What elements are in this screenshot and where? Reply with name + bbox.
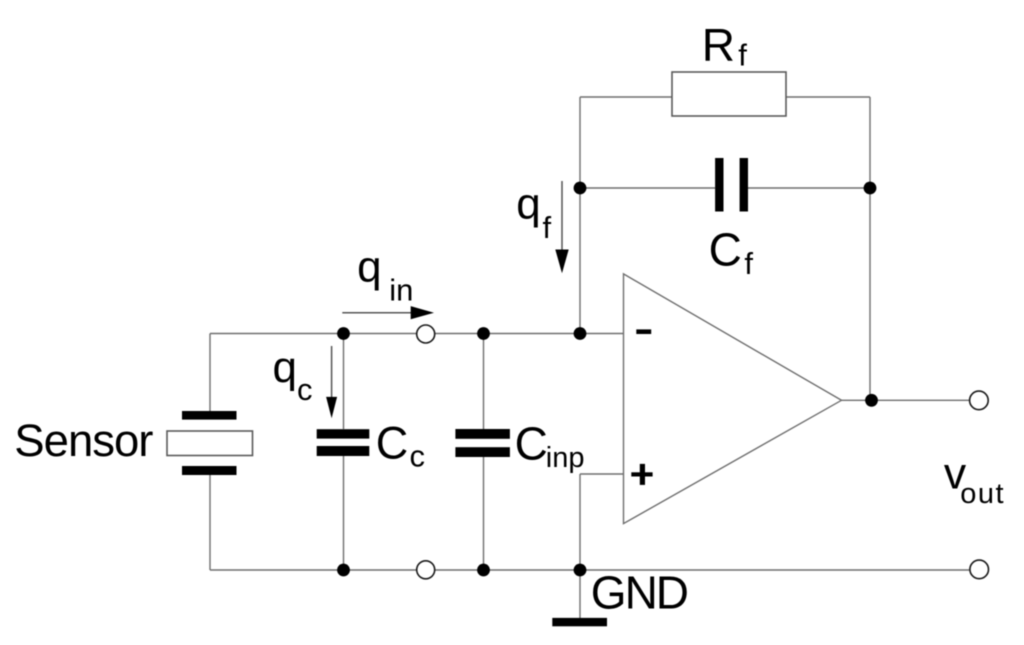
wire top feedback rail left segment	[580, 96, 672, 98]
wire Cf branch right	[748, 187, 870, 189]
capacitor Cc plates	[317, 429, 370, 456]
node dot output junction	[865, 394, 878, 407]
terminal open circle bottom rail left	[417, 561, 435, 579]
label Cinp	[515, 418, 585, 474]
wire Cinp bottom lead	[483, 457, 485, 570]
wire Cf branch left	[580, 187, 715, 189]
node dot input rail at Cinp	[477, 327, 490, 340]
wire feedback right vertical	[869, 97, 871, 400]
wire output	[842, 399, 970, 401]
op-amp plus input symbol	[631, 464, 652, 485]
node dot feedback right on Cf rail	[864, 182, 877, 195]
label Cc	[376, 417, 425, 473]
resistor Rf body	[672, 72, 786, 116]
op-amp minus input symbol	[636, 329, 651, 334]
wire ground stub	[579, 570, 581, 618]
capacitor Cf plates	[715, 158, 748, 212]
svg-text:C: C	[376, 417, 409, 468]
svg-text:q: q	[516, 179, 540, 228]
wire sensor top lead	[209, 334, 211, 412]
svg-text:R: R	[702, 19, 735, 71]
svg-text:C: C	[709, 224, 742, 276]
svg-text:f: f	[738, 38, 747, 73]
wire input rail (inverting input)	[210, 333, 624, 335]
node dot input rail at feedback	[574, 327, 587, 340]
svg-text:f: f	[744, 246, 753, 281]
terminal open circle input rail	[417, 325, 435, 343]
wire Cinp top lead	[483, 334, 485, 430]
svg-text:c: c	[410, 439, 426, 474]
node dot input rail at Cc	[337, 327, 350, 340]
wire feedback left vertical	[579, 97, 581, 334]
ground symbol bar	[552, 618, 607, 626]
sensor piezo element	[167, 411, 253, 475]
svg-text:in: in	[389, 273, 413, 308]
arrow qf current	[555, 181, 568, 273]
svg-text:q: q	[357, 242, 381, 291]
wire bottom ground rail	[210, 569, 970, 571]
capacitor Cinp plates	[455, 429, 510, 457]
svg-text:out: out	[960, 478, 1005, 510]
svg-text:Sensor: Sensor	[14, 415, 153, 466]
wire non-inverting input horizontal	[580, 473, 624, 475]
op-amp U1 triangle	[624, 274, 842, 524]
svg-text:q: q	[273, 343, 297, 392]
svg-text:C: C	[515, 418, 548, 470]
terminal open circle output	[970, 391, 989, 410]
label qin	[357, 242, 413, 307]
wire top feedback rail right segment	[786, 96, 870, 98]
node dot bottom rail at Cinp	[477, 564, 490, 577]
node dot feedback left on Cf rail	[574, 182, 587, 195]
wire non-inverting input vertical to ground rail	[579, 474, 581, 570]
wire Cc top lead	[343, 334, 345, 430]
node dot bottom rail at Cc	[337, 564, 350, 577]
wire Cc bottom lead	[343, 456, 345, 570]
label vout	[944, 450, 1005, 511]
wire sensor bottom lead	[209, 475, 211, 570]
label Rf	[702, 19, 748, 73]
label Cf	[709, 224, 754, 281]
arrow qc current	[326, 346, 337, 418]
node dot bottom rail at ground stub	[574, 564, 587, 577]
svg-text:c: c	[297, 372, 313, 407]
svg-text:f: f	[543, 210, 552, 245]
svg-text:GND: GND	[591, 567, 688, 619]
svg-text:inp: inp	[546, 442, 585, 474]
label qc	[273, 343, 313, 407]
arrow qin current	[342, 306, 434, 319]
terminal open circle bottom rail right	[970, 560, 989, 579]
label qf	[516, 179, 551, 245]
